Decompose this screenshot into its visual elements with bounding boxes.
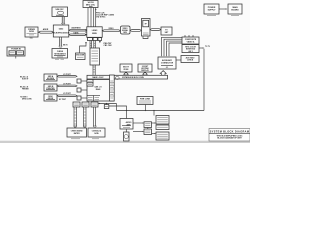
svg-text:CONN B: CONN B (187, 60, 194, 62)
svg-text:CONNECTOR: CONNECTOR (161, 62, 174, 64)
svg-text:VIDEO: VIDEO (123, 28, 129, 30)
svg-text:ENCODER: ENCODER (76, 55, 85, 57)
svg-text:MAIN LOGIC: MAIN LOGIC (92, 76, 104, 79)
svg-text:LS245: LS245 (92, 29, 98, 32)
svg-text:EXPANSION BUS CONN: EXPANSION BUS CONN (122, 76, 144, 79)
svg-text:ADDR: ADDR (43, 28, 49, 31)
svg-text:MMU: MMU (92, 33, 97, 35)
svg-text:NC TEST: NC TEST (59, 99, 66, 101)
svg-text:64K x 8: 64K x 8 (94, 86, 102, 89)
svg-text:RF: RF (145, 24, 147, 26)
svg-text:UHF 3: UHF 3 (188, 51, 193, 53)
svg-text:PWR CONN: PWR CONN (140, 99, 151, 101)
svg-text:BLOCK DIAGRAM OF UNIT: BLOCK DIAGRAM OF UNIT (217, 137, 242, 140)
svg-text:TO TV: TO TV (205, 46, 211, 48)
svg-text:BOARD: BOARD (231, 9, 239, 12)
svg-text:DISPLAY: DISPLAY (141, 69, 149, 72)
svg-text:SUPPLY: SUPPLY (208, 10, 216, 12)
svg-text:DRIVE CONN: DRIVE CONN (22, 99, 31, 101)
svg-text:MICROPROCESSOR: MICROPROCESSOR (53, 32, 70, 34)
svg-text:D0-7: D0-7 (30, 38, 34, 40)
svg-text:TO DISK II: TO DISK II (20, 97, 28, 99)
svg-text:CB1 CB2: CB1 CB2 (104, 45, 112, 47)
svg-text:PRINTER: PRINTER (22, 89, 30, 91)
svg-text:VID SYNC: VID SYNC (96, 17, 106, 19)
svg-text:ROM: ROM (29, 31, 34, 33)
svg-text:RAM: RAM (96, 88, 101, 91)
svg-text:RS-232-C B: RS-232-C B (20, 87, 29, 89)
svg-text:14M OSC: 14M OSC (55, 8, 64, 11)
svg-text:POWER IN: POWER IN (11, 49, 21, 51)
svg-text:ROM: ROM (124, 69, 129, 71)
svg-text:VIDEO A: VIDEO A (187, 40, 195, 43)
svg-text:MIXER MOD: MIXER MOD (186, 49, 196, 51)
svg-text:NTSC COLOR: NTSC COLOR (185, 46, 196, 48)
svg-text:HOST I/F: HOST I/F (22, 79, 28, 81)
svg-text:J-1: J-1 (166, 67, 169, 69)
